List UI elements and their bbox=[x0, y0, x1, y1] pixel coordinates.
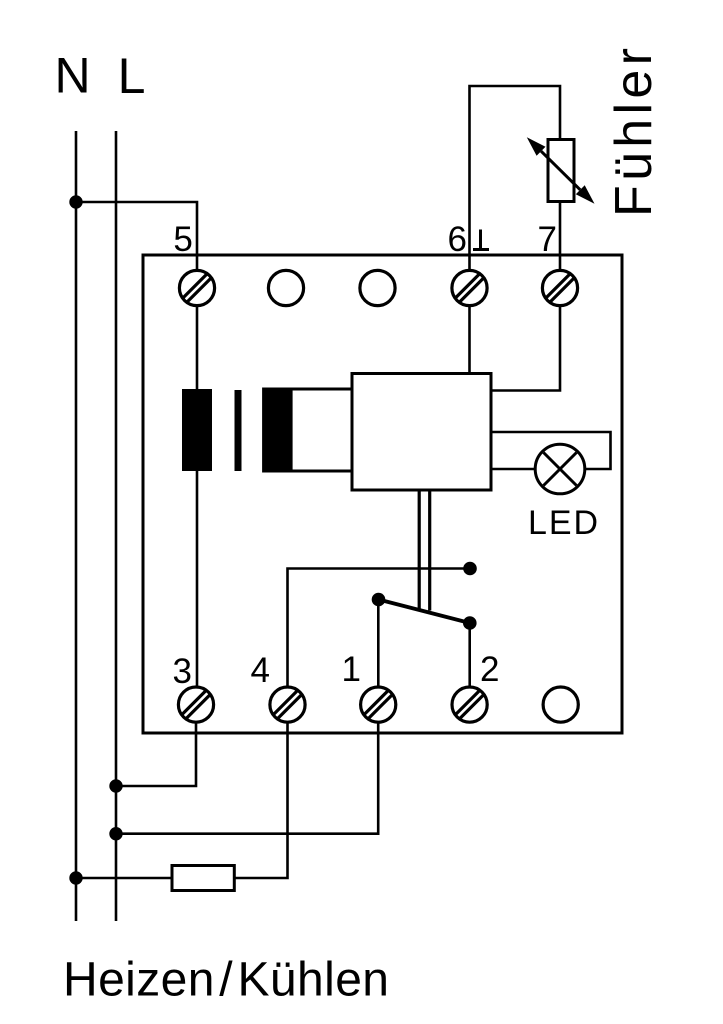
switch S1 lever bbox=[379, 600, 470, 624]
earth symbol at terminal 6 bbox=[473, 230, 489, 250]
node switch upper contact bbox=[463, 562, 477, 576]
resistor Fühler sensor probe bbox=[548, 140, 574, 202]
wire N to terminal 5 bbox=[76, 202, 197, 288]
node junction on N bbox=[69, 195, 82, 208]
wire switch contact to terminal 2 bbox=[468, 623, 471, 704]
terminal 3 screw bbox=[178, 687, 213, 722]
terminal blank bottom bbox=[543, 687, 578, 722]
svg-text:1: 1 bbox=[342, 650, 361, 689]
wire terminal 3 to L bbox=[116, 705, 196, 786]
wire transformer primary to terminal 3 bbox=[196, 470, 199, 704]
svg-text:7: 7 bbox=[538, 220, 557, 259]
node junction N resistor bbox=[69, 871, 82, 884]
wire N to resistor bbox=[76, 877, 172, 880]
node junction L terminal 1 bbox=[109, 827, 122, 840]
terminal 6 screw bbox=[452, 270, 487, 305]
node junction L terminal 3 bbox=[109, 779, 122, 792]
resistor R1 bbox=[172, 866, 234, 891]
terminal 4 screw bbox=[270, 687, 305, 722]
wire module to LED cathode bbox=[491, 468, 535, 471]
transformer T1 core bar bbox=[235, 390, 242, 471]
transformer T1 secondary winding block bbox=[264, 389, 352, 471]
svg-text:2: 2 bbox=[480, 650, 499, 689]
electronics module U1 box bbox=[352, 374, 491, 491]
svg-text:Heizen / Kühlen: Heizen / Kühlen bbox=[63, 954, 389, 1007]
wire terminal 1 to L bbox=[116, 705, 378, 834]
svg-text:Fühler: Fühler bbox=[605, 48, 663, 217]
terminal blank top A bbox=[268, 270, 303, 305]
svg-text:4: 4 bbox=[251, 651, 270, 690]
relay mechanical link double line bbox=[419, 490, 430, 611]
wire resistor to terminal 4 bbox=[234, 705, 287, 878]
svg-text:N: N bbox=[54, 48, 90, 104]
svg-text:6: 6 bbox=[448, 220, 467, 259]
wire sensor to terminal 7 bbox=[559, 202, 562, 289]
wire terminal 7 to module bbox=[491, 288, 560, 391]
wire terminal 6 to module bbox=[468, 288, 471, 374]
arrow across sensor bbox=[527, 137, 595, 204]
device outline box bbox=[143, 255, 622, 733]
svg-text:3: 3 bbox=[173, 652, 192, 691]
wire terminal 4 to switch contact bbox=[288, 569, 471, 705]
wire N supply line bbox=[75, 131, 78, 921]
wire L supply line bbox=[115, 131, 118, 921]
svg-text:L: L bbox=[118, 48, 146, 104]
LED lamp symbol bbox=[535, 444, 585, 494]
wire switch pivot to terminal 1 bbox=[377, 600, 380, 705]
terminal blank top B bbox=[360, 270, 395, 305]
terminal 5 screw bbox=[179, 270, 214, 305]
terminal 2 screw bbox=[452, 687, 487, 722]
wire terminal 5 to transformer primary bbox=[196, 288, 199, 390]
terminal 1 screw bbox=[361, 687, 396, 722]
svg-text:5: 5 bbox=[173, 220, 192, 259]
switch S1 pivot node bbox=[372, 593, 386, 607]
transformer T1 primary winding bar bbox=[182, 389, 212, 471]
svg-text:LED: LED bbox=[528, 504, 598, 542]
terminal 7 screw bbox=[542, 270, 577, 305]
node switch lower contact bbox=[463, 616, 477, 630]
wire module to LED anode bbox=[491, 432, 611, 469]
wire sensor loop from terminal 6 bbox=[470, 86, 561, 288]
